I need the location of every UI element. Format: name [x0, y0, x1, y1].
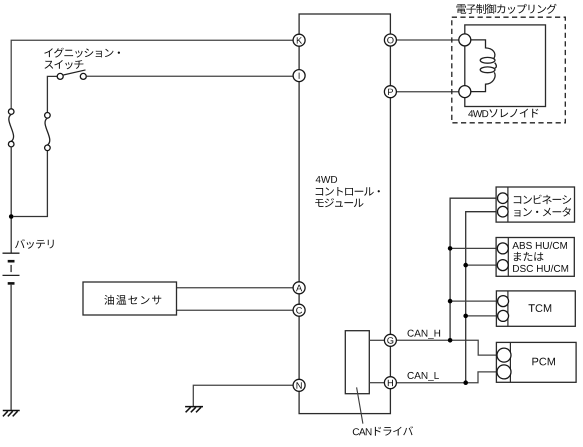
wire CAN_L to ABS	[466, 264, 498, 266]
CAN_L bus vertical	[466, 212, 498, 383]
battery BT plate 2 (-)	[8, 260, 15, 263]
oil temp sensor box	[83, 282, 177, 315]
wire terminal P to coupling	[397, 91, 459, 93]
4WD solenoid box	[465, 25, 546, 107]
label battery バッテリ	[15, 239, 54, 249]
terminal H letter	[388, 380, 393, 386]
wire terminal N to ground	[193, 385, 292, 406]
terminal C	[293, 304, 305, 316]
label 4WDソレノイド	[468, 109, 538, 118]
label oil temp sensor 油温センサ	[104, 295, 161, 305]
label CAN_L	[408, 372, 439, 381]
label module line3 モジュール	[315, 198, 363, 207]
label module line1 4WD	[316, 176, 338, 183]
label ABS HU/CM	[512, 242, 567, 249]
label または	[514, 252, 544, 261]
wire CAN_H from terminal G to PCM	[397, 340, 498, 355]
wire terminal O to coupling	[397, 39, 459, 41]
terminal O	[384, 34, 396, 46]
ground (terminal N)	[185, 407, 203, 413]
solenoid coil L1	[471, 40, 495, 59]
terminal G letter	[387, 337, 393, 344]
label TCM	[529, 304, 552, 312]
wire fuse F2 to ignition switch	[47, 76, 57, 112]
label コンビネーシ	[514, 195, 572, 205]
terminal K	[293, 34, 305, 46]
fuse F2 bottom terminal	[45, 145, 51, 151]
label PCM	[532, 358, 555, 366]
wire CAN_L from terminal H to PCM	[397, 372, 498, 383]
ignition switch SW1 right contact	[80, 73, 86, 79]
label ignition switch line1 イグニッション・	[44, 48, 120, 58]
fuse F1 top terminal	[8, 109, 14, 115]
wire ignition branch to junction	[13, 151, 47, 217]
terminal N letter	[297, 382, 302, 388]
wire oil temp sensor to terminal A	[177, 287, 293, 289]
label CAN_H	[408, 330, 441, 339]
wire CAN driver to terminal H	[369, 382, 384, 384]
CAN driver box U1	[345, 331, 369, 394]
ground (battery negative)	[3, 411, 20, 417]
node CAN_H/TCM	[448, 299, 453, 304]
ignition switch SW1 left contact	[57, 73, 63, 79]
4WD control module box	[299, 14, 390, 414]
node battery junction	[9, 214, 14, 219]
terminal G	[384, 334, 396, 346]
node CAN_L/TCM	[463, 314, 468, 319]
label module line2 コントロール・	[316, 187, 380, 196]
ignition switch SW1 lever	[63, 70, 85, 75]
wire CAN_L to TCM	[466, 315, 498, 317]
node CAN_L/H	[463, 380, 468, 385]
coupling terminal upper	[459, 34, 471, 46]
battery BT inter-cell link	[10, 265, 12, 272]
terminal P	[384, 86, 396, 98]
ABS/DSC HU/CM unit box	[496, 238, 574, 277]
label CANドライバ	[353, 426, 413, 435]
combination meter unit box	[496, 187, 574, 222]
wire ignition switch to terminal I	[86, 75, 292, 77]
label 電子制御カップリング	[457, 4, 557, 14]
terminal I letter	[298, 73, 301, 79]
wire battery supply to terminal K	[11, 40, 293, 109]
terminal H	[384, 377, 396, 389]
wire battery negative to ground	[10, 285, 12, 410]
terminal K letter	[297, 37, 302, 43]
TCM unit box	[496, 291, 575, 326]
fuse F2 top terminal	[45, 113, 51, 119]
label DSC HU/CM	[513, 265, 568, 272]
wire CAN driver to terminal G	[369, 339, 384, 341]
terminal N	[293, 379, 305, 391]
fuse F1 bottom terminal	[8, 141, 14, 147]
terminal A letter	[296, 285, 302, 291]
battery BT plate 1 (+)	[3, 252, 20, 254]
node CAN_H/G	[448, 338, 453, 343]
label ョン・メータ	[514, 207, 571, 217]
CAN_H bus vertical	[450, 198, 498, 340]
battery BT plate 4 (-)	[8, 282, 15, 285]
terminal P letter	[388, 89, 393, 95]
wire CAN_H to ABS	[450, 247, 497, 249]
wire CAN_H to TCM	[450, 300, 498, 302]
wire oil temp sensor to terminal C	[177, 309, 293, 311]
fuse F2 element	[45, 118, 50, 145]
node CAN_H/ABS	[448, 246, 453, 251]
PCM unit box	[496, 342, 576, 382]
label ignition switch line2 スイッチ	[45, 60, 84, 69]
fuse F1 element	[9, 114, 14, 141]
CAN driver leader line	[357, 387, 363, 423]
terminal A	[293, 282, 305, 294]
wire fuse F1 to battery junction	[10, 147, 12, 253]
battery BT plate 3 (+)	[3, 274, 20, 276]
coupling terminal lower	[459, 86, 471, 98]
node CAN_L/ABS	[463, 263, 468, 268]
terminal C letter	[296, 307, 302, 314]
electronic control coupling dashed box	[452, 17, 566, 123]
terminal I	[293, 70, 305, 82]
terminal O letter	[387, 37, 393, 44]
